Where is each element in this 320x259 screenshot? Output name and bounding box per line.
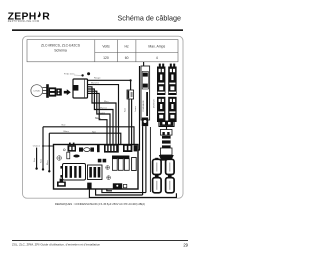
control strip U3 <box>141 62 150 120</box>
svg-text:29: 29 <box>183 242 188 247</box>
svg-text:Noir: Noir <box>95 117 99 120</box>
spec table <box>27 40 178 62</box>
connector CN5 bottom <box>113 183 127 188</box>
capacitor C1 <box>162 136 171 148</box>
ground screw (fil de terre) <box>64 72 90 76</box>
svg-text:REMARQUES : CONDENSATEUR (2.5-: REMARQUES : CONDENSATEUR (2.5-45.5µF 250… <box>55 202 145 206</box>
zephyr logo <box>8 11 51 23</box>
bracket part <box>57 179 66 187</box>
svg-text:Noir: Noir <box>40 159 43 163</box>
screw hole H2 <box>106 166 110 170</box>
svg-text:COMMANDE: COMMANDE <box>142 99 145 112</box>
svg-text:Noir: Noir <box>124 108 127 112</box>
wire Bleu <box>88 87 117 145</box>
svg-text:Schéma de câblage: Schéma de câblage <box>117 13 181 22</box>
power plug P1 <box>31 85 43 97</box>
terminal block stubs <box>159 64 175 67</box>
connector J2 housing <box>73 79 88 98</box>
wire lamp feeds <box>149 127 151 192</box>
wire Rouge <box>88 77 132 90</box>
svg-text:60: 60 <box>125 56 129 60</box>
terminal block TB3 <box>157 97 165 122</box>
wire Blanche <box>88 83 119 145</box>
wire Marron <box>88 89 114 145</box>
svg-text:Max. Amps: Max. Amps <box>148 45 165 49</box>
wire pcb-bottom 4 <box>107 189 112 191</box>
terminal block TB1 <box>157 67 165 96</box>
svg-text:Volts: Volts <box>102 45 110 49</box>
svg-text:Noir: Noir <box>33 158 36 162</box>
lamp LP2 <box>166 158 175 175</box>
wire Jaune <box>88 91 111 144</box>
svg-text:ZSL, ZLC, ZRM, ZRI Guide d'uti: ZSL, ZLC, ZRM, ZRI Guide d'utilisation, … <box>12 243 100 247</box>
test point <box>63 149 65 151</box>
PCB main board <box>54 145 139 190</box>
relay bank RL1-RL3 <box>112 156 129 171</box>
outer diagram box <box>23 36 184 198</box>
svg-text:120: 120 <box>103 56 109 60</box>
capacitor C3 <box>73 155 79 158</box>
screw hole H3 <box>107 176 111 180</box>
terminal block TB2 <box>168 67 176 96</box>
transformer T1 <box>60 164 85 181</box>
svg-text:ZLC-M90CS, ZLC-E42CS: ZLC-M90CS, ZLC-E42CS <box>41 43 81 47</box>
wire Noir upper <box>92 117 99 134</box>
screw hole H1 <box>57 156 62 161</box>
svg-text:Fil de terre: Fil de terre <box>64 72 75 75</box>
arrow <box>64 89 71 95</box>
ic U2 <box>132 158 137 171</box>
lamp connector wedge <box>159 155 174 161</box>
connector CN2 multi-pin <box>104 144 119 153</box>
header rule <box>12 29 183 31</box>
svg-text:ZEPHYRONLINE.COM: ZEPHYRONLINE.COM <box>8 20 40 23</box>
jumper J3 <box>97 144 100 152</box>
lamp LP4 <box>166 178 175 193</box>
svg-text:Schéma: Schéma <box>54 49 67 53</box>
svg-text:4: 4 <box>156 56 158 60</box>
wire pcb-bottom 2 <box>96 189 143 195</box>
lamp LP1 <box>153 158 162 175</box>
motor connector CN7 <box>160 130 172 136</box>
footer rule <box>12 239 188 242</box>
svg-text:Jaune: Jaune <box>135 105 137 112</box>
fuse F1 <box>79 148 94 152</box>
wire strip to pcb <box>138 66 146 195</box>
svg-text:Chaleur: Chaleur <box>33 145 41 148</box>
wire chaleur sensor <box>33 145 41 170</box>
svg-text:Hz: Hz <box>125 45 129 49</box>
connector J1 plug body <box>46 84 62 98</box>
svg-text:MOTEUR: MOTEUR <box>154 99 156 108</box>
svg-text:Rouge: Rouge <box>94 77 101 79</box>
lamp LP3 <box>153 178 162 193</box>
terminal block TB4 <box>168 97 176 122</box>
wire plug leads <box>42 87 47 93</box>
wire Noir long <box>40 124 135 171</box>
wire Blanc lower <box>88 93 108 144</box>
lamp interconnects <box>155 174 172 178</box>
keypad connector <box>142 118 148 127</box>
connector CN3 <box>123 144 132 152</box>
wire pcb-bottom 1 <box>89 189 176 198</box>
connector CN4 <box>134 145 138 151</box>
svg-text:120VAC: 120VAC <box>33 90 41 93</box>
wire relay to PCB <box>129 99 132 145</box>
connector CN1 on pcb top <box>68 143 77 152</box>
relay K1 <box>124 90 137 112</box>
connector CN6 bottom-left <box>87 183 91 189</box>
slot S1 <box>67 152 70 159</box>
inductor L1 <box>88 165 103 180</box>
svg-text:Bleu: Bleu <box>47 160 49 165</box>
tb bottom bracket connector <box>159 121 174 130</box>
wire pcb-bottom 3 <box>102 189 146 193</box>
capacitor C2 pads <box>98 159 106 163</box>
wire Blanc long <box>47 131 121 173</box>
svg-text:R: R <box>42 12 50 23</box>
junction box <box>160 148 172 155</box>
